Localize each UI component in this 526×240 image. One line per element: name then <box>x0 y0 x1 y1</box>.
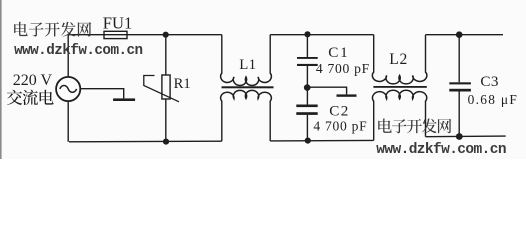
svg-text:4 700 pF: 4 700 pF <box>313 118 367 133</box>
svg-text:0.68 μF: 0.68 μF <box>468 92 519 107</box>
svg-text:C3: C3 <box>480 73 499 90</box>
svg-text:FU1: FU1 <box>103 13 133 32</box>
svg-text:C1: C1 <box>328 44 349 61</box>
svg-text:www.dzkfw.com.cn: www.dzkfw.com.cn <box>376 142 506 158</box>
svg-text:L2: L2 <box>389 51 408 68</box>
svg-text:R1: R1 <box>174 76 191 92</box>
svg-text:www.dzkfw.com.cn: www.dzkfw.com.cn <box>14 43 142 59</box>
svg-text:4 700 pF: 4 700 pF <box>316 61 370 76</box>
svg-text:C2: C2 <box>329 102 350 119</box>
svg-text:220 V: 220 V <box>13 72 53 89</box>
svg-text:L1: L1 <box>239 57 256 73</box>
